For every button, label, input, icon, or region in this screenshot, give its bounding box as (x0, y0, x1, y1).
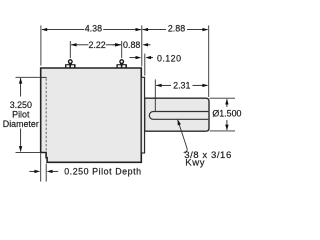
svg-text:2.22: 2.22 (88, 40, 105, 50)
svg-text:0.88: 0.88 (123, 40, 140, 50)
svg-text:2.31: 2.31 (173, 81, 190, 91)
svg-text:Diameter: Diameter (3, 119, 39, 129)
svg-text:2.88: 2.88 (168, 24, 185, 34)
svg-text:Kwy: Kwy (185, 158, 205, 169)
svg-text:4.38: 4.38 (85, 24, 102, 34)
svg-text:0.120: 0.120 (157, 54, 181, 64)
svg-text:0.250 Pilot Depth: 0.250 Pilot Depth (64, 166, 141, 176)
svg-text:Pilot: Pilot (12, 110, 30, 120)
svg-text:3.250: 3.250 (10, 100, 32, 110)
svg-text:Ø1.500: Ø1.500 (212, 108, 241, 118)
